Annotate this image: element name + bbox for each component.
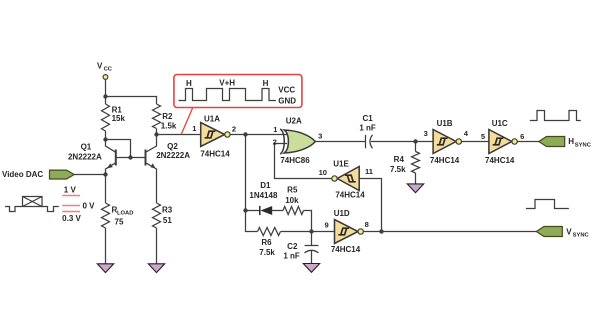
diode D1 — [246, 181, 284, 215]
svg-text:74HC14: 74HC14 — [430, 156, 460, 165]
svg-text:R4: R4 — [394, 155, 405, 164]
VSYNC tag — [536, 227, 562, 237]
wire XOR pin2 feedback — [275, 144, 333, 179]
resistor R5 — [283, 186, 312, 232]
Vcc terminal — [103, 75, 108, 80]
wire feedback riser to U1E — [359, 179, 381, 232]
svg-text:R6: R6 — [261, 238, 272, 247]
svg-text:SYNC: SYNC — [573, 233, 590, 239]
xor U2A — [273, 117, 323, 165]
node Q1 collector — [103, 137, 107, 141]
svg-text:C2: C2 — [287, 242, 298, 251]
node Q2 collector — [154, 132, 158, 136]
svg-text:74HC86: 74HC86 — [280, 156, 310, 165]
wire C1 to U1B — [371, 141, 433, 143]
svg-text:15k: 15k — [112, 114, 126, 123]
svg-text:Q2: Q2 — [167, 142, 178, 151]
H waveform — [530, 111, 581, 121]
svg-text:Video DAC: Video DAC — [2, 170, 43, 179]
svg-text:2: 2 — [232, 125, 236, 134]
svg-text:2N2222A: 2N2222A — [156, 151, 190, 160]
svg-text:U1A: U1A — [204, 115, 220, 124]
svg-text:11: 11 — [365, 167, 374, 176]
svg-text:74HC14: 74HC14 — [200, 150, 230, 159]
svg-text:V: V — [97, 62, 103, 71]
wire to XOR pin1 — [246, 134, 288, 136]
ground RLOAD — [97, 264, 113, 273]
wire Video DAC input — [74, 174, 105, 176]
level line 1V — [62, 195, 80, 197]
svg-text:C1: C1 — [362, 114, 373, 123]
wire collector to bases — [106, 140, 131, 158]
svg-text:U1E: U1E — [333, 159, 349, 168]
node C1/R4 — [413, 139, 417, 143]
ground R4 — [407, 184, 423, 193]
wire XOR out to C1 — [315, 141, 365, 143]
red callout line — [181, 107, 193, 134]
svg-text:7.5k: 7.5k — [259, 248, 275, 257]
svg-text:9: 9 — [324, 220, 328, 229]
svg-text:0.3 V: 0.3 V — [62, 214, 81, 223]
svg-text:74HC14: 74HC14 — [485, 156, 515, 165]
ground R3 — [148, 264, 164, 273]
svg-text:7.5k: 7.5k — [390, 165, 406, 174]
svg-text:R5: R5 — [287, 186, 298, 195]
svg-text:VCC: VCC — [278, 85, 295, 94]
svg-text:V+H: V+H — [219, 78, 235, 87]
svg-text:GND: GND — [278, 96, 296, 105]
resistor R6 — [258, 228, 312, 257]
svg-text:U1D: U1D — [334, 209, 350, 218]
svg-text:H: H — [568, 137, 574, 146]
wire Vcc stem — [105, 80, 107, 97]
node RC junction — [309, 229, 313, 233]
VSYNC label — [566, 227, 589, 238]
video waveform symbol — [5, 197, 59, 212]
svg-text:3: 3 — [318, 131, 322, 140]
inverter U1A — [192, 115, 236, 159]
Video DAC tag — [50, 170, 75, 179]
resistor R2 — [153, 104, 177, 135]
inverter U1C — [481, 119, 525, 165]
svg-text:1.5k: 1.5k — [161, 121, 177, 130]
svg-text:R2: R2 — [162, 112, 173, 121]
svg-text:74HC14: 74HC14 — [335, 190, 365, 199]
HSYNC tag — [539, 137, 565, 147]
svg-text:Q1: Q1 — [81, 143, 92, 152]
svg-text:74HC14: 74HC14 — [331, 245, 361, 254]
svg-text:R3: R3 — [162, 206, 173, 215]
resistor R1 — [102, 97, 126, 140]
svg-text:1N4148: 1N4148 — [249, 191, 278, 200]
red callout box — [174, 75, 302, 108]
svg-text:8: 8 — [365, 220, 369, 229]
svg-text:3: 3 — [424, 129, 428, 138]
wire U1A out — [230, 134, 245, 136]
svg-text:10: 10 — [319, 168, 327, 177]
svg-text:V: V — [566, 227, 572, 236]
node D1 tap — [243, 208, 247, 212]
node emitter input — [103, 172, 107, 176]
svg-text:10k: 10k — [285, 196, 299, 205]
node U1A output — [243, 132, 247, 136]
inverter U1D — [324, 209, 368, 254]
level line 0.3V — [62, 211, 80, 213]
node U1D output — [379, 229, 383, 233]
wire base rail — [116, 157, 146, 159]
svg-text:CC: CC — [104, 67, 113, 73]
Vcc label — [97, 62, 113, 73]
inverter U1B — [424, 119, 469, 165]
resistor R3 — [153, 203, 173, 264]
resistor RLOAD — [102, 175, 134, 264]
svg-text:1 nF: 1 nF — [283, 252, 300, 261]
svg-text:0 V: 0 V — [83, 202, 96, 211]
svg-text:2: 2 — [273, 138, 277, 147]
svg-text:75: 75 — [115, 217, 124, 226]
wire to U1D — [312, 231, 335, 233]
level line 0V — [62, 205, 80, 207]
svg-text:1 V: 1 V — [64, 185, 77, 194]
V waveform — [526, 200, 569, 209]
svg-text:2N2222A: 2N2222A — [68, 152, 102, 161]
ground C2 — [303, 264, 319, 273]
node Vcc rail junction — [103, 94, 107, 98]
svg-text:1 nF: 1 nF — [359, 124, 376, 133]
svg-text:6: 6 — [520, 132, 524, 141]
wire U1B out — [462, 141, 489, 143]
svg-text:51: 51 — [163, 216, 172, 225]
wire U1D out — [363, 231, 381, 233]
svg-text:LOAD: LOAD — [117, 211, 133, 217]
wire Q2 collector to U1A — [157, 134, 201, 136]
wire U1C out to HSYNC — [517, 141, 539, 143]
svg-text:U1B: U1B — [437, 119, 453, 128]
svg-text:SYNC: SYNC — [575, 142, 592, 148]
HSYNC label — [568, 137, 591, 148]
node base tie — [128, 155, 132, 159]
svg-text:H: H — [263, 79, 269, 88]
inverter U1E — [319, 159, 374, 199]
resistor R4 — [390, 142, 419, 184]
svg-text:U2A: U2A — [286, 117, 302, 126]
transistor Q2 — [146, 135, 191, 204]
wire U1A node down to R6 — [246, 135, 258, 232]
callout waveform — [179, 89, 276, 101]
transistor Q1 — [68, 140, 116, 175]
wire Vcc rail to R2 — [106, 97, 157, 105]
svg-text:U1C: U1C — [492, 119, 508, 128]
svg-text:D1: D1 — [260, 181, 271, 190]
capacitor C1 — [359, 114, 376, 149]
svg-text:H: H — [186, 79, 192, 88]
wire U1D node to VSYNC — [382, 231, 537, 233]
capacitor C2 — [283, 232, 318, 264]
